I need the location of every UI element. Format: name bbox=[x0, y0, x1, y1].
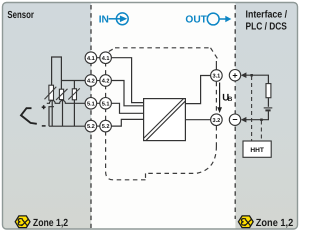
svg-text:4.1: 4.1 bbox=[102, 56, 110, 62]
top-right chamfer bbox=[211, 48, 218, 59]
svg-text:PLC / DCS: PLC / DCS bbox=[246, 21, 288, 32]
svg-text:Interface /: Interface / bbox=[246, 10, 288, 21]
arrowhead into plus bbox=[241, 72, 247, 78]
terminal 5.2 R bbox=[100, 120, 112, 132]
bottom-left rounded corner bbox=[106, 132, 113, 180]
wire 5.1 with hop-overs bbox=[47, 100, 85, 103]
resistor R1 bbox=[49, 85, 54, 100]
load resistor bbox=[266, 84, 271, 98]
sensor wiring bbox=[47, 57, 85, 126]
junction on minus wire bbox=[260, 119, 263, 122]
svg-text:5.1: 5.1 bbox=[102, 101, 110, 107]
wire 4.1 to box bbox=[111, 58, 143, 103]
wires inner terminals to isolator bbox=[111, 58, 210, 126]
terminal 4.2 L bbox=[85, 75, 97, 87]
terminal plus bbox=[229, 70, 240, 81]
svg-text:4.1: 4.1 bbox=[87, 56, 95, 62]
device dashed boundary box bbox=[106, 48, 218, 180]
junction on plus wire bbox=[250, 74, 253, 77]
battery short plate bbox=[265, 109, 270, 111]
minus label bbox=[42, 125, 46, 127]
RTD diagonal strokes bbox=[45, 87, 80, 100]
IN icon (arrow into circle) bbox=[109, 13, 129, 25]
bottom bus wire to 5.2 bbox=[49, 125, 85, 127]
plus label bbox=[42, 105, 46, 109]
terminal 5.1 R bbox=[100, 98, 112, 110]
isolator box U1 bbox=[144, 99, 186, 141]
right edge segments through 3.1/3.2 bbox=[215, 82, 217, 114]
wire minus feed bbox=[246, 111, 269, 119]
wire resistor to battery bbox=[267, 98, 269, 107]
terminal labels bbox=[87, 56, 220, 130]
terminal 4.1 L bbox=[85, 52, 97, 64]
top edge bbox=[115, 47, 211, 49]
terminal circles left column bbox=[85, 52, 241, 132]
svg-text:5.2: 5.2 bbox=[102, 124, 110, 130]
wire 4.2 to R3/R2 tops bbox=[61, 80, 85, 82]
thermocouple symbol bbox=[21, 108, 37, 124]
svg-text:5.2: 5.2 bbox=[87, 124, 95, 130]
bottom-right rounded corner bbox=[146, 146, 217, 173]
resistor R2 bbox=[59, 89, 63, 99]
zone boundary dashed line left bbox=[90, 5, 92, 228]
svg-text:4.2: 4.2 bbox=[102, 79, 110, 85]
svg-text:−: − bbox=[232, 115, 237, 125]
wire bracket 4.1 to R1/R2 tops bbox=[52, 57, 62, 89]
UB arrow bbox=[219, 83, 221, 109]
HHT box bbox=[243, 141, 271, 157]
svg-text:Zone 1,2: Zone 1,2 bbox=[33, 218, 68, 229]
dashed drop to HHT from minus bbox=[260, 121, 262, 142]
pair connector links bbox=[97, 58, 101, 126]
interface panel (blue-gray) bbox=[235, 0, 300, 231]
wire 4.2 to box bbox=[111, 81, 143, 106]
arrowhead into minus bbox=[241, 117, 247, 123]
svg-text:3.2: 3.2 bbox=[213, 118, 221, 124]
svg-text:4.2: 4.2 bbox=[87, 79, 95, 85]
svg-text:5.1: 5.1 bbox=[87, 101, 95, 107]
bottom step bbox=[145, 173, 147, 179]
svg-text:B: B bbox=[228, 96, 233, 103]
supply loop right bbox=[246, 75, 269, 120]
svg-text:+: + bbox=[232, 70, 237, 80]
dashed drop to HHT from plus bbox=[251, 76, 253, 141]
wire box to 3.1 bbox=[185, 76, 210, 104]
top-left chamfer bbox=[109, 48, 115, 52]
terminal 3.2 bbox=[211, 114, 223, 126]
zone boundary dashed line right bbox=[234, 5, 236, 219]
terminal minus bbox=[229, 114, 240, 125]
resistor R3 bbox=[72, 89, 76, 100]
wire 5.2 to box bbox=[111, 119, 143, 126]
svg-text:OUT: OUT bbox=[185, 14, 207, 25]
svg-text:HHT: HHT bbox=[250, 147, 264, 154]
terminal 4.2 R bbox=[100, 75, 112, 87]
battery long plate bbox=[264, 107, 273, 109]
terminal 4.1 R bbox=[100, 52, 112, 64]
svg-text:3.1: 3.1 bbox=[213, 74, 221, 80]
TC link bracket bbox=[49, 107, 54, 127]
sensor panel (gray) bbox=[0, 0, 91, 231]
terminal 5.1 L bbox=[85, 98, 97, 110]
Ex logo right bbox=[238, 216, 253, 228]
left edge segments through inner circles bbox=[105, 109, 107, 120]
Ex logo left bbox=[15, 216, 30, 228]
wire plus feed bbox=[246, 75, 269, 83]
isolation diagonal band bbox=[144, 99, 183, 138]
OUT icon (arrow out of circle) bbox=[207, 13, 231, 25]
solid stub above 3.1 bbox=[215, 61, 217, 70]
svg-text:IN: IN bbox=[99, 14, 109, 25]
terminal 3.1 bbox=[211, 70, 223, 82]
wire 5.1 to box bbox=[111, 103, 143, 113]
terminal 5.2 L bbox=[85, 120, 97, 132]
svg-text:Sensor: Sensor bbox=[7, 10, 34, 21]
resistor bottom leads bbox=[51, 100, 53, 126]
wire box to 3.2 bbox=[185, 119, 210, 121]
svg-text:Zone 1,2: Zone 1,2 bbox=[256, 218, 294, 229]
